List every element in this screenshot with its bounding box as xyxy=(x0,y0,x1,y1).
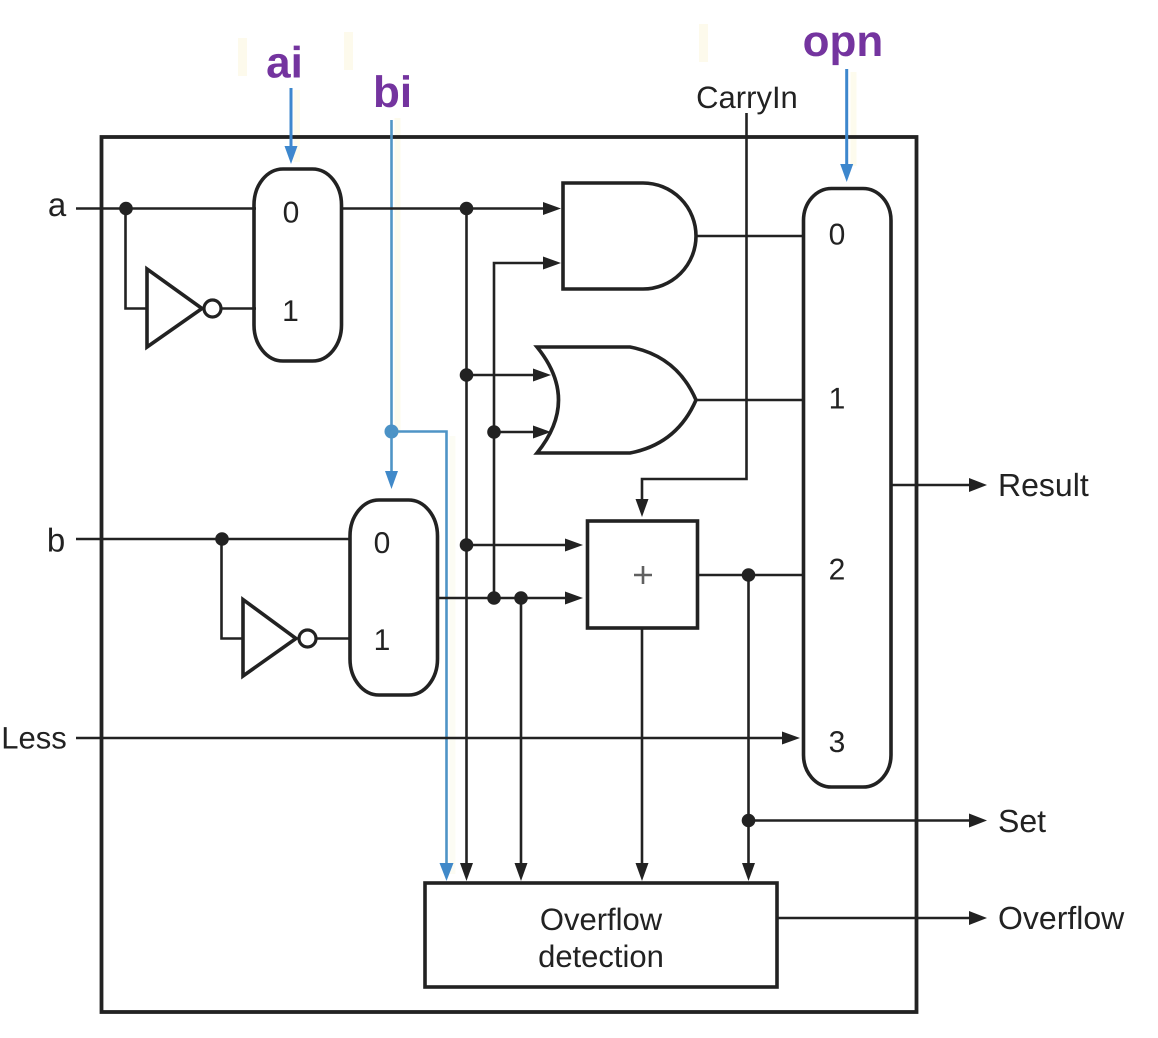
wire a-bus to adder input 1 xyxy=(467,544,568,547)
svg-text:Less: Less xyxy=(1,721,66,756)
wire U1 sum output to mux M3 input 2 xyxy=(697,574,805,577)
svg-text:Set: Set xyxy=(998,803,1046,839)
OR gate G4 xyxy=(537,347,696,453)
faint highlighter smudge right of ai xyxy=(344,32,353,70)
wire bi branch to overflow detection xyxy=(392,432,447,867)
wire Overflow output xyxy=(777,917,970,920)
svg-text:3: 3 xyxy=(829,726,846,759)
wire b to inverter G2 xyxy=(222,539,244,639)
svg-text:detection: detection xyxy=(538,939,664,974)
adder U1 box xyxy=(588,521,698,628)
faint highlighter strip beside bi overflow branch xyxy=(450,436,456,874)
wire Result output xyxy=(891,484,970,487)
svg-text:b: b xyxy=(47,522,65,559)
wire sum branch down to overflow detection xyxy=(747,575,750,866)
inverter G2 triangle xyxy=(243,600,296,677)
svg-text:1: 1 xyxy=(829,383,846,416)
wire a to inverter G1 xyxy=(126,209,148,309)
svg-text:CarryIn: CarryIn xyxy=(696,80,798,115)
wire G2 output to mux M2 input 1 xyxy=(316,637,350,640)
svg-text:a: a xyxy=(48,186,67,223)
wire a-bus to OR input 1 xyxy=(467,374,538,377)
wire a-bus vertical to overflow detection xyxy=(465,209,468,867)
node M2 output junction to b-bus xyxy=(487,591,501,605)
inverter G2 bubble xyxy=(299,630,316,647)
wire U1 CarryOut bottom to overflow detection xyxy=(641,628,644,866)
wire b result branch to overflow detection xyxy=(520,598,523,866)
overflow detection box U2 xyxy=(425,883,777,987)
node bi junction xyxy=(385,425,399,439)
wire Less to mux M3 input 3 xyxy=(76,737,786,740)
wire input b xyxy=(76,538,350,541)
node a-bus junction top xyxy=(460,202,474,216)
wire bi vertical xyxy=(390,120,393,432)
faint highlighter strip beside opn arrow xyxy=(851,72,857,166)
node M2 output junction to overflow branch xyxy=(514,591,528,605)
enclosure border frame of ALU cell xyxy=(102,137,917,1012)
faint highlighter smudge left of opn xyxy=(699,24,708,62)
node a-bus junction at OR input xyxy=(460,368,474,382)
node b junction xyxy=(215,532,229,546)
select arrow bi into mux M2 xyxy=(390,432,393,474)
node Set junction xyxy=(742,814,756,828)
svg-text:1: 1 xyxy=(374,624,391,657)
inverter G1 triangle xyxy=(147,269,202,347)
faint highlighter strip beside bi wire xyxy=(395,118,401,434)
svg-text:0: 0 xyxy=(829,219,846,252)
svg-text:2: 2 xyxy=(829,554,846,587)
svg-text:1: 1 xyxy=(282,295,299,328)
node b-bus junction at OR input 2 xyxy=(487,425,501,439)
adder U1 plus label xyxy=(634,566,652,584)
svg-text:Result: Result xyxy=(998,467,1089,503)
wire Set output xyxy=(749,819,971,822)
select arrow ai into mux M1 xyxy=(290,88,293,148)
wire b-bus to OR input 2 xyxy=(494,431,537,434)
svg-text:ai: ai xyxy=(266,39,303,88)
node a junction xyxy=(119,202,133,216)
faint highlighter strip beside ai arrow xyxy=(294,90,301,162)
svg-text:0: 0 xyxy=(374,527,391,560)
node a-bus junction at adder input xyxy=(460,538,474,552)
wire M2 output to adder input 2 xyxy=(438,597,567,600)
svg-text:Overflow: Overflow xyxy=(540,902,663,937)
wire M1 output to AND input 1 xyxy=(342,207,548,210)
svg-text:bi: bi xyxy=(373,68,412,117)
wire input a xyxy=(76,207,256,210)
mux M2 (b invert select) xyxy=(350,500,438,695)
wire b-bus vertical to AND input 2 xyxy=(494,263,547,598)
inverter G1 bubble xyxy=(204,300,221,317)
wire G3 output to mux M3 input 0 xyxy=(696,235,805,238)
node sum junction xyxy=(742,568,756,582)
svg-text:0: 0 xyxy=(283,197,300,230)
wire G1 output to mux M1 input 1 xyxy=(221,307,256,310)
faint highlighter smudge left of ai xyxy=(238,38,247,76)
AND gate G3 xyxy=(563,183,696,289)
select arrow opn into mux M3 xyxy=(845,69,848,166)
wire G4 output to mux M3 input 1 xyxy=(696,399,805,402)
wire CarryIn vertical into adder xyxy=(642,113,747,502)
svg-text:opn: opn xyxy=(803,17,884,66)
svg-text:Overflow: Overflow xyxy=(998,900,1125,936)
mux M1 (a invert select) xyxy=(254,169,342,361)
mux M3 (operation select) xyxy=(804,189,892,788)
